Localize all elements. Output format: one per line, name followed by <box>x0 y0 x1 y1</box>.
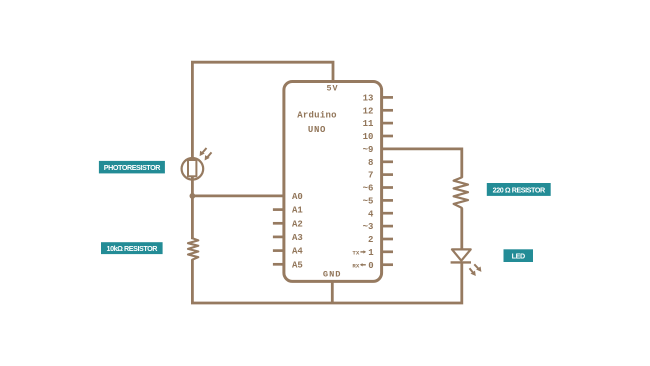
wire: junction to Arduino pin A0 <box>192 194 284 197</box>
svg-text:~3: ~3 <box>363 222 374 232</box>
svg-text:A2: A2 <box>292 219 303 229</box>
LED D1: cathode bar <box>451 261 471 263</box>
pin 12 stub <box>382 109 393 112</box>
board U1: Arduino UNO body <box>284 82 382 282</box>
svg-text:PHOTORESISTOR: PHOTORESISTOR <box>104 163 161 172</box>
label tag: LED <box>504 249 534 262</box>
pin A2 stub <box>273 222 284 225</box>
svg-text:220 Ω RESISTOR: 220 Ω RESISTOR <box>493 185 546 194</box>
svg-text:RX: RX <box>352 262 359 269</box>
svg-text:7: 7 <box>368 171 373 181</box>
svg-text:A3: A3 <box>292 233 303 243</box>
pin 6 stub <box>382 186 393 189</box>
pin A4 stub <box>273 249 284 252</box>
LED D1: emitted light arrow 1 <box>474 264 481 272</box>
svg-text:GND: GND <box>323 269 342 279</box>
U1 pin label: TX arrow 1 <box>352 248 374 258</box>
pin A5 stub <box>273 263 284 266</box>
svg-text:8: 8 <box>368 158 373 168</box>
svg-text:Arduino: Arduino <box>297 111 337 121</box>
svg-text:LED: LED <box>512 252 525 261</box>
pin 4 stub <box>382 212 393 215</box>
svg-text:1: 1 <box>368 248 374 258</box>
photoresistor LDR1: circle <box>182 158 204 180</box>
svg-text:2: 2 <box>368 235 373 245</box>
label tag: PHOTORESISTOR <box>99 161 165 174</box>
pin 11 stub <box>382 122 393 125</box>
wire: Arduino pin ~9 across and down to 220 resistor <box>382 149 462 178</box>
svg-text:0: 0 <box>368 261 373 271</box>
svg-text:A0: A0 <box>292 192 303 202</box>
pin 13 stub <box>382 96 393 99</box>
wire: 220 resistor down to LED anode <box>460 208 463 250</box>
wire: ground rail from 10k resistor down, across bottom, up to LED cathode <box>192 259 461 303</box>
svg-text:10kΩ RESISTOR: 10kΩ RESISTOR <box>107 244 159 253</box>
pin 3 stub <box>382 225 393 228</box>
wire: 5V rail from Arduino 5V pin up, across, and down to photoresistor <box>192 62 333 160</box>
pin A1 stub <box>273 208 284 211</box>
svg-text:A1: A1 <box>292 206 303 216</box>
photoresistor LDR1: incoming light arrow 2 <box>205 152 212 160</box>
svg-text:12: 12 <box>363 106 374 116</box>
svg-text:13: 13 <box>363 94 374 104</box>
svg-text:~6: ~6 <box>363 184 374 194</box>
photoresistor LDR1: inner rectangle <box>188 160 196 176</box>
label tag: 10kΩ RESISTOR <box>101 242 163 254</box>
pin 5 stub <box>382 199 393 202</box>
pin 10 stub <box>382 135 393 138</box>
pin 0 stub <box>382 263 393 266</box>
svg-text:UNO: UNO <box>308 125 326 135</box>
U1 pin label: RX arrow 0 <box>352 261 373 271</box>
svg-text:A5: A5 <box>292 260 303 270</box>
pin 1 stub <box>382 250 393 253</box>
svg-text:~5: ~5 <box>363 197 374 207</box>
wire: Arduino GND pin stub down to ground rail <box>331 281 334 303</box>
wire: photoresistor bottom through junction down to 10k resistor <box>191 176 194 239</box>
pin 2 stub <box>382 238 393 241</box>
label tag: 220 Ω RESISTOR <box>487 183 551 196</box>
photoresistor LDR1: incoming light arrow 1 <box>200 148 207 156</box>
svg-text:4: 4 <box>368 209 374 219</box>
pin A3 stub <box>273 236 284 239</box>
pin 8 stub <box>382 160 393 163</box>
svg-text:5V: 5V <box>326 84 338 94</box>
LED D1: emitted light arrow 2 <box>470 268 476 276</box>
svg-text:A4: A4 <box>292 247 303 257</box>
svg-text:10: 10 <box>363 132 374 142</box>
svg-text:~9: ~9 <box>363 145 374 155</box>
pin 7 stub <box>382 173 393 176</box>
resistor R1 10kΩ <box>188 238 198 259</box>
node: junction of photoresistor, 10k resistor and A0 <box>190 193 196 199</box>
resistor R2 220Ω <box>454 177 468 208</box>
LED D1: triangle (anode) <box>452 249 471 260</box>
svg-text:11: 11 <box>363 119 374 129</box>
svg-text:TX: TX <box>352 249 359 256</box>
